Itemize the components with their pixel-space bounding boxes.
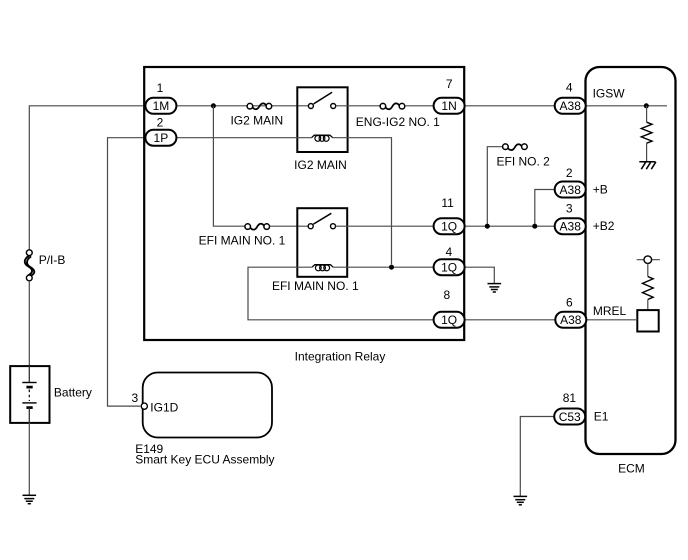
svg-text:1N: 1N [441, 99, 456, 113]
node: junction 1M branch [211, 103, 216, 108]
wire: coil right to 1Q pin 4 [333, 266, 434, 268]
svg-text:1Q: 1Q [441, 313, 457, 327]
svg-text:A38: A38 [560, 313, 582, 327]
svg-text:1P: 1P [154, 131, 169, 145]
connector oval 1N [434, 98, 465, 114]
driver block (MREL) [637, 310, 658, 331]
connector oval 1Q pin 11 [434, 218, 465, 234]
svg-text:Battery: Battery [54, 386, 92, 400]
relay IG2 MAIN switch [308, 92, 335, 108]
wire: coil left loop to 1Q pin 8 [248, 267, 434, 320]
svg-text:IGSW: IGSW [593, 86, 626, 100]
battery [10, 366, 49, 423]
svg-text:A38: A38 [560, 183, 582, 197]
connector oval 1P [145, 130, 176, 146]
svg-text:+B: +B [593, 183, 608, 197]
svg-text:Smart Key ECU Assembly: Smart Key ECU Assembly [135, 453, 274, 467]
relay EFI MAIN switch [308, 213, 335, 228]
svg-text:8: 8 [444, 288, 451, 302]
svg-text:ECM: ECM [618, 461, 645, 475]
Integration Relay box [144, 67, 464, 340]
connector oval A38 IGSW [555, 98, 586, 114]
wire: relay switch to fuse ENG-IG2 [336, 105, 381, 107]
wire: battery to ground [28, 423, 30, 495]
fuse IG2 MAIN [247, 103, 272, 109]
svg-text:1M: 1M [153, 99, 170, 113]
svg-text:2: 2 [157, 116, 164, 130]
wire: C53 E1 to ground [520, 417, 554, 497]
svg-text:E1: E1 [594, 410, 609, 424]
ground (E1) [514, 496, 528, 504]
wire: 1Q 11 to A38 +B2 [464, 225, 555, 227]
wire: IGSW internal [586, 105, 668, 107]
wire: junction down to EFI MAIN NO.1 fuse [213, 106, 245, 226]
svg-text:A38: A38 [560, 220, 582, 234]
connector oval 1Q pin 4 [434, 259, 465, 275]
svg-text:3: 3 [131, 391, 138, 405]
wire: 1N to A38 IGSW [464, 105, 555, 107]
svg-text:3: 3 [566, 202, 573, 216]
svg-text:Integration Relay: Integration Relay [295, 349, 386, 363]
node: junction IGSW [644, 103, 649, 108]
wire: 1Q 8 to A38 MREL [464, 319, 555, 321]
wire: battery B+ rail from 1M left [29, 106, 176, 250]
svg-text:+B2: +B2 [593, 219, 615, 233]
wire: IG1D rail from 1P [108, 138, 177, 406]
svg-text:11: 11 [441, 196, 454, 210]
svg-text:7: 7 [446, 77, 453, 91]
connector oval A38 +B [555, 182, 586, 198]
ECM box [586, 67, 676, 454]
svg-text:IG2 MAIN: IG2 MAIN [230, 114, 283, 128]
svg-text:ENG-IG2 NO. 1: ENG-IG2 NO. 1 [356, 115, 440, 129]
svg-text:EFI NO. 2: EFI NO. 2 [497, 154, 551, 168]
svg-text:EFI MAIN NO. 1: EFI MAIN NO. 1 [199, 234, 286, 248]
wire: junction to resistor [646, 106, 648, 122]
svg-text:C53: C53 [559, 410, 581, 424]
resistor (MREL) [643, 277, 654, 300]
connector oval 1Q pin 8 [434, 312, 465, 328]
connector oval A38 MREL [555, 312, 586, 328]
wire: +B2 branch up to EFI NO.2 fuse [487, 147, 503, 227]
svg-text:1Q: 1Q [441, 220, 457, 234]
ground (battery) [23, 495, 37, 503]
svg-text:81: 81 [563, 391, 577, 405]
fuse EFI MAIN NO. 1 [245, 224, 270, 230]
ground (1Q 4) [488, 284, 502, 292]
node: junction +B2 / EFI NO.2 [485, 224, 490, 229]
wire: coil to EFI MAIN coil junction [332, 138, 391, 265]
svg-text:4: 4 [566, 81, 573, 95]
wire: fusible link to battery [28, 281, 30, 366]
svg-text:6: 6 [566, 296, 573, 310]
Smart Key ECU box [143, 373, 272, 438]
wire: resistor to chassis ground [646, 143, 648, 162]
relay EFI MAIN coil [312, 265, 333, 271]
wire: relay EFI switch to 1Q pin 11 [336, 225, 435, 227]
svg-text:1: 1 [157, 81, 164, 95]
svg-text:MREL: MREL [593, 304, 627, 318]
svg-text:4: 4 [446, 245, 453, 259]
relay IG2 MAIN coil [312, 135, 333, 141]
wire: A38 MREL to driver [586, 319, 638, 321]
wire: resistor to driver [647, 300, 649, 311]
svg-text:IG1D: IG1D [150, 400, 178, 414]
wire: fuse to relay EFI switch [270, 225, 309, 227]
svg-text:IG2 MAIN: IG2 MAIN [294, 158, 347, 172]
chassis ground (IGSW) [639, 162, 656, 169]
relay IG2 MAIN box [297, 87, 347, 152]
svg-text:A38: A38 [560, 99, 582, 113]
node: junction coil / 1Q4 [389, 265, 394, 270]
wire: terminal to resistor [647, 264, 649, 277]
svg-text:EFI MAIN NO. 1: EFI MAIN NO. 1 [272, 279, 359, 293]
wire: 1Q 4 to ground [464, 267, 494, 283]
connector oval C53 E1 [554, 409, 585, 425]
connector pin 3 IG1D [141, 403, 147, 409]
connector oval A38 +B2 [555, 218, 586, 234]
fuse ENG-IG2 NO. 1 [380, 103, 405, 109]
wire: fuse to 1N [405, 105, 434, 107]
wire: 1P to coil [176, 137, 312, 139]
svg-text:1Q: 1Q [441, 261, 457, 275]
wire: 1M to IG2 MAIN relay switch [176, 105, 308, 107]
power terminal (MREL circuit) [637, 256, 660, 264]
node: junction +B branch [532, 224, 537, 229]
resistor (IGSW pull-down) [641, 122, 652, 143]
fuse EFI NO. 2 [503, 144, 528, 150]
fusible link P/I-B [25, 250, 35, 281]
svg-text:2: 2 [566, 166, 573, 180]
wire: +B branch [535, 190, 555, 227]
relay EFI MAIN NO.1 box [297, 208, 347, 277]
svg-text:P/I-B: P/I-B [39, 253, 66, 267]
connector oval 1M [145, 98, 176, 114]
